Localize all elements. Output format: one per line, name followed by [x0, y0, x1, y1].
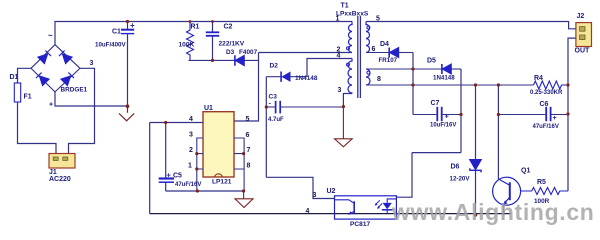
capacitor C5	[159, 123, 202, 192]
svg-text:100K: 100K	[179, 42, 195, 49]
svg-text:Q1: Q1	[521, 168, 530, 175]
svg-text:3: 3	[338, 87, 342, 94]
svg-text:C3: C3	[269, 94, 278, 101]
wire snubber rail	[189, 59, 259, 61]
svg-text:J2: J2	[577, 13, 585, 20]
svg-text:4: 4	[189, 116, 193, 123]
wire bridge diamond	[31, 45, 80, 92]
zener D6	[450, 85, 482, 215]
svg-text:F1: F1	[24, 94, 32, 101]
transformer T1 core	[336, 3, 369, 99]
svg-text:~: ~	[48, 31, 53, 40]
svg-text:1: 1	[188, 163, 192, 170]
svg-text:C2: C2	[224, 24, 233, 31]
pin 6 7 8 U1 bracket	[234, 132, 251, 191]
pin 4 U1	[150, 116, 203, 123]
svg-text:7: 7	[247, 147, 251, 154]
svg-text:4.7uF: 4.7uF	[268, 117, 284, 123]
svg-text:10uF/400V: 10uF/400V	[95, 42, 126, 49]
svg-text:J1: J1	[49, 169, 57, 176]
svg-text:5: 5	[246, 116, 250, 123]
resistor R1	[179, 22, 200, 61]
svg-text:D3: D3	[226, 49, 235, 56]
svg-text:U2: U2	[327, 188, 336, 195]
wire left branch vertical	[149, 123, 151, 214]
optocoupler U2	[306, 188, 397, 228]
svg-text:+: +	[445, 112, 450, 121]
wire secondary mid rail	[412, 152, 461, 154]
transformer T1 aux winding	[337, 53, 353, 95]
svg-text:D4: D4	[380, 41, 389, 48]
svg-text:R4: R4	[534, 75, 543, 82]
svg-text:1N4148: 1N4148	[433, 75, 455, 82]
diode D3	[226, 49, 258, 66]
svg-text:C6: C6	[540, 101, 549, 108]
svg-text:C1: C1	[112, 29, 121, 36]
wire AC right leg	[69, 68, 95, 153]
wire AC left leg	[18, 68, 57, 153]
svg-text:LP121: LP121	[212, 179, 232, 186]
svg-text:OUT: OUT	[575, 48, 591, 55]
ground primary chassis	[119, 108, 134, 121]
capacitor C2	[206, 22, 245, 61]
capacitor C1	[95, 21, 135, 106]
wire bridge output bottom	[55, 92, 128, 106]
wire U1 ground rail	[166, 190, 244, 192]
wire D4 anode vertical	[412, 53, 414, 115]
wire D5 anode vertical	[460, 69, 462, 153]
svg-text:LPxxBxxS: LPxxBxxS	[336, 11, 369, 18]
wire secondary pin7 row	[366, 68, 442, 70]
bridge rectifier D1	[10, 31, 94, 109]
svg-text:+: +	[49, 102, 53, 109]
IC U1	[203, 105, 234, 186]
svg-text:222/1KV: 222/1KV	[219, 41, 245, 48]
transistor Q1	[493, 85, 531, 215]
svg-text:R1: R1	[191, 24, 200, 31]
svg-text:www.Alighting.cn: www.Alighting.cn	[391, 199, 594, 225]
wire feedback to U2	[266, 177, 334, 198]
resistor R4	[530, 75, 568, 96]
svg-text:3: 3	[189, 132, 193, 139]
transformer T1 secondary winding 2	[366, 69, 381, 85]
svg-text:+: +	[167, 170, 172, 179]
svg-text:D6: D6	[451, 164, 460, 171]
wire secondary pin8 row	[366, 84, 534, 86]
transformer T1 secondary winding 1	[366, 16, 380, 54]
svg-text:1: 1	[336, 16, 340, 23]
svg-text:BRDGE1: BRDGE1	[61, 87, 88, 94]
wire secondary pin6 row	[366, 52, 389, 54]
diode D4	[379, 41, 414, 64]
resistor R5	[521, 179, 568, 205]
svg-text:4: 4	[306, 208, 310, 215]
svg-text:2: 2	[189, 147, 193, 154]
fuse F1	[14, 83, 31, 102]
ground signal below U1	[235, 191, 253, 208]
capacitor C7	[413, 100, 461, 128]
ground signal below C3	[335, 107, 353, 147]
wire drain node vertical	[234, 53, 259, 122]
wire primary pin2 link	[259, 52, 353, 54]
wire bottom return rail	[150, 213, 511, 215]
connector J1	[49, 154, 75, 184]
svg-text:10uF/16V: 10uF/16V	[430, 122, 456, 128]
transformer polarity dots	[347, 26, 370, 74]
svg-text:U1: U1	[204, 105, 213, 112]
svg-text:AC220: AC220	[49, 176, 71, 183]
svg-text:F4007: F4007	[239, 49, 258, 56]
diode D2	[266, 63, 318, 83]
svg-text:D2: D2	[270, 63, 279, 70]
svg-text:4: 4	[337, 53, 341, 60]
node junction dots	[126, 20, 570, 217]
capacitor C6	[498, 101, 568, 130]
pin 3 2 1 U1 bracket	[188, 132, 203, 192]
svg-text:6: 6	[246, 132, 250, 139]
svg-text:12-20V: 12-20V	[450, 176, 471, 183]
transformer T1 primary winding	[336, 16, 353, 54]
svg-text:0.25-330KR: 0.25-330KR	[530, 90, 563, 96]
wire bias node vertical	[265, 77, 267, 178]
wire top bus primary	[55, 22, 352, 45]
wire aux pin4 link	[307, 59, 352, 77]
wire U2 led anode link	[396, 153, 412, 198]
svg-text:C5: C5	[173, 172, 182, 179]
svg-text:PC817: PC817	[350, 221, 370, 228]
svg-text:8: 8	[377, 76, 381, 83]
svg-text:C7: C7	[431, 100, 440, 107]
diode D5	[427, 58, 461, 82]
svg-text:3: 3	[313, 192, 317, 199]
svg-text:+: +	[130, 21, 135, 30]
svg-text:D5: D5	[427, 58, 436, 65]
svg-text:3: 3	[90, 60, 94, 67]
wire aux pin3 link	[343, 94, 352, 107]
wire output feedback vertical	[568, 38, 576, 191]
capacitor C3	[266, 94, 343, 124]
svg-text:47uF/16V: 47uF/16V	[175, 182, 201, 188]
svg-text:8: 8	[247, 163, 251, 170]
svg-text:47uF/16V: 47uF/16V	[533, 124, 559, 130]
svg-text:+: +	[553, 113, 558, 122]
connector J2	[575, 13, 592, 55]
svg-text:FR107: FR107	[379, 57, 398, 64]
svg-text:R5: R5	[537, 179, 546, 186]
svg-text:T1: T1	[341, 3, 349, 10]
wire output bus top	[366, 22, 576, 29]
